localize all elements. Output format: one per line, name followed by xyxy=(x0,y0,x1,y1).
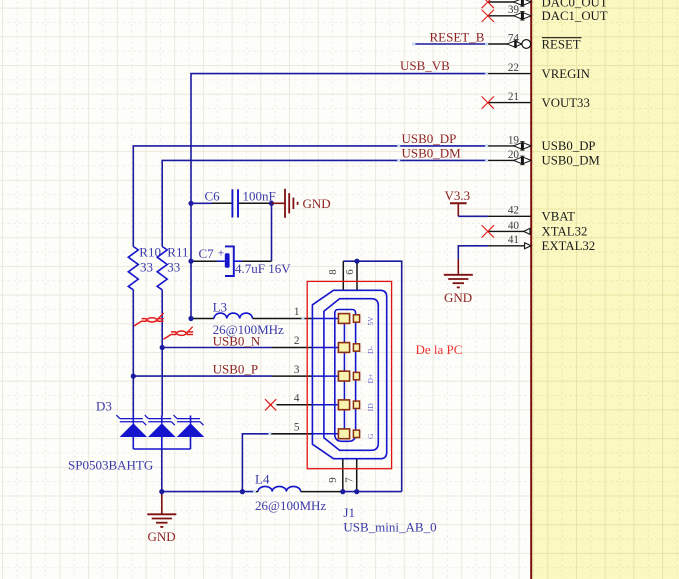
pin 19 USB0_DP xyxy=(488,134,596,153)
wire USB0_DM xyxy=(162,160,488,246)
junction xyxy=(159,489,164,494)
svg-text:40: 40 xyxy=(508,220,520,232)
svg-text:J1: J1 xyxy=(343,505,355,520)
svg-text:1: 1 xyxy=(294,306,300,318)
junction xyxy=(188,201,193,206)
svg-text:USB0_DP: USB0_DP xyxy=(402,131,457,146)
svg-text:VOUT33: VOUT33 xyxy=(542,96,590,110)
svg-text:EXTAL32: EXTAL32 xyxy=(542,239,596,253)
pin 4 lead xyxy=(276,404,313,406)
svg-text:3: 3 xyxy=(294,364,300,376)
wire USB0_N xyxy=(162,347,271,349)
junction xyxy=(240,489,245,494)
svg-text:19: 19 xyxy=(508,134,520,146)
svg-text:C7: C7 xyxy=(199,246,215,261)
wire USB0_DP xyxy=(133,146,488,247)
no-connect X pin 4 xyxy=(265,399,276,410)
pin 20 USB0_DM xyxy=(488,149,600,168)
svg-text:C6: C6 xyxy=(205,188,221,203)
svg-text:VBAT: VBAT xyxy=(542,210,576,224)
pin 42 VBAT xyxy=(488,205,575,224)
junction xyxy=(354,489,359,494)
diode D3c xyxy=(190,416,192,424)
svg-text:G: G xyxy=(366,433,375,439)
IC U1 left border xyxy=(530,0,532,579)
pin 8 lead xyxy=(342,261,344,291)
ground GND (top, rotated) xyxy=(272,189,331,218)
svg-text:V3.3: V3.3 xyxy=(445,188,471,203)
svg-text:22: 22 xyxy=(508,62,519,74)
resistor R11 xyxy=(157,244,188,289)
capacitor C6 xyxy=(193,188,276,217)
ground GND (bottom) xyxy=(147,492,176,544)
diode common bus xyxy=(133,448,190,450)
J1 pad D+ xyxy=(314,371,375,383)
pin 7 lead xyxy=(356,460,358,492)
svg-text:D+: D+ xyxy=(366,374,375,384)
svg-text:74: 74 xyxy=(508,32,520,44)
svg-text:USB0_DM: USB0_DM xyxy=(402,146,462,161)
svg-text:USB_VB: USB_VB xyxy=(400,58,450,73)
J1 pad 5V xyxy=(314,314,375,326)
wire RESET_B xyxy=(415,43,488,45)
J1 pad link line xyxy=(343,319,345,434)
junction xyxy=(354,259,359,264)
resistor R10 xyxy=(128,244,161,289)
junction xyxy=(188,259,193,264)
svg-text:4: 4 xyxy=(294,393,300,405)
wire EXTAL32 xyxy=(458,246,488,260)
pin 41 EXTAL32 xyxy=(488,234,595,253)
ground GND (right) xyxy=(444,260,473,306)
svg-text:GND: GND xyxy=(148,529,176,544)
svg-text:USB_mini_AB_0: USB_mini_AB_0 xyxy=(343,520,436,535)
svg-text:VREGIN: VREGIN xyxy=(542,67,590,81)
wire VBAT xyxy=(458,215,488,217)
svg-text:L3: L3 xyxy=(213,299,227,314)
J1 slot xyxy=(335,310,356,442)
svg-text:RESET_B: RESET_B xyxy=(430,30,485,45)
svg-text:39: 39 xyxy=(508,4,520,16)
J1 pad D- xyxy=(314,343,375,354)
svg-text:R11: R11 xyxy=(167,244,188,259)
svg-text:De la PC: De la PC xyxy=(416,342,463,357)
capacitor C7 (polarized) xyxy=(193,246,292,276)
junction xyxy=(340,489,345,494)
pin 38 DAC0_OUT xyxy=(482,0,608,9)
wire USB0_P xyxy=(133,375,271,377)
power symbol V3.3 xyxy=(445,188,471,216)
wire C6-C7 right xyxy=(271,203,273,261)
svg-text:21: 21 xyxy=(508,91,519,103)
inductor L4 xyxy=(253,472,343,514)
svg-text:33: 33 xyxy=(140,260,153,275)
connector J1 red boundary xyxy=(307,281,391,468)
J1 pad ID xyxy=(314,400,375,411)
diode D3a xyxy=(132,416,134,424)
svg-text:7: 7 xyxy=(343,477,355,483)
ERC marker squiggle 2 xyxy=(164,327,194,340)
junction xyxy=(188,316,193,321)
wire R10 lower xyxy=(132,290,134,416)
svg-text:2: 2 xyxy=(294,335,300,347)
wire endpoint markers xyxy=(397,144,400,147)
wire USB_VB xyxy=(191,74,488,319)
svg-text:USB0_DM: USB0_DM xyxy=(542,154,600,168)
svg-text:5: 5 xyxy=(294,422,300,434)
svg-text:RESET: RESET xyxy=(542,37,581,51)
J1 shell inner xyxy=(324,299,378,451)
svg-text:L4: L4 xyxy=(255,472,270,487)
pin 39 DAC1_OUT xyxy=(482,4,608,23)
svg-text:20: 20 xyxy=(508,149,520,161)
pin 74 RESET xyxy=(488,32,582,51)
svg-text:41: 41 xyxy=(508,234,519,246)
junction xyxy=(131,374,136,379)
svg-text:8: 8 xyxy=(327,269,339,274)
pin 21 VOUT33 xyxy=(482,91,590,110)
svg-text:GND: GND xyxy=(303,196,331,211)
svg-text:6: 6 xyxy=(344,269,356,275)
wire pin 5 xyxy=(242,434,313,492)
svg-text:USB0_P: USB0_P xyxy=(213,361,259,376)
junction C6 right xyxy=(269,201,274,206)
pin 22 VREGIN xyxy=(488,62,590,81)
diode D3b xyxy=(161,416,163,424)
svg-text:DAC0_OUT: DAC0_OUT xyxy=(542,0,608,9)
wire R11 lower xyxy=(161,290,163,416)
wire bottom bus xyxy=(162,491,253,493)
svg-text:+: + xyxy=(218,248,225,260)
svg-text:D3: D3 xyxy=(96,399,112,414)
J1 pad G xyxy=(314,429,375,439)
svg-text:USB0_DP: USB0_DP xyxy=(542,139,596,153)
J1 shell outer xyxy=(312,290,386,458)
svg-text:SP0503BAHTG: SP0503BAHTG xyxy=(68,458,153,473)
svg-text:42: 42 xyxy=(508,205,519,217)
svg-text:26@100MHz: 26@100MHz xyxy=(255,498,326,513)
svg-text:ID: ID xyxy=(366,403,375,412)
svg-text:D-: D- xyxy=(366,346,375,354)
pin 40 XTAL32 xyxy=(482,220,588,239)
svg-text:9: 9 xyxy=(327,477,339,482)
IC U1 body (yellow block) xyxy=(531,0,679,579)
svg-text:GND: GND xyxy=(444,290,472,305)
svg-text:4.7uF 16V: 4.7uF 16V xyxy=(235,261,291,276)
pin 6 lead xyxy=(356,261,358,291)
svg-text:DAC1_OUT: DAC1_OUT xyxy=(542,9,608,23)
svg-text:USB0_N: USB0_N xyxy=(213,333,261,348)
junction xyxy=(160,345,165,350)
wire J1 shield riser xyxy=(343,261,401,491)
svg-text:33: 33 xyxy=(167,260,180,275)
wire to J1 shield xyxy=(343,491,402,493)
svg-text:5V: 5V xyxy=(366,316,375,326)
ERC marker squiggle 1 xyxy=(134,313,164,326)
pin 9 lead xyxy=(342,460,344,492)
svg-text:XTAL32: XTAL32 xyxy=(542,225,588,239)
inductor L3 xyxy=(193,299,314,337)
